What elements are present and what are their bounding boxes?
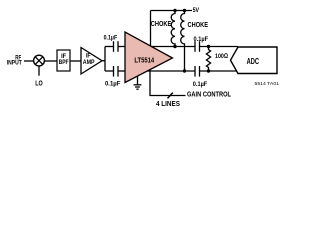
svg-text:AMP: AMP	[83, 59, 95, 66]
svg-text:0.1µF: 0.1µF	[193, 81, 208, 88]
svg-text:LO: LO	[35, 81, 43, 88]
svg-text:5514 TA01: 5514 TA01	[255, 81, 280, 86]
svg-text:0.1µF: 0.1µF	[104, 35, 118, 42]
svg-text:GAIN CONTROL: GAIN CONTROL	[187, 92, 231, 99]
svg-text:CHOKE: CHOKE	[151, 21, 172, 28]
svg-text:0.1µF: 0.1µF	[105, 80, 121, 87]
svg-text:5V: 5V	[193, 7, 200, 14]
svg-text:0.1µF: 0.1µF	[194, 36, 209, 43]
svg-text:4 LINES: 4 LINES	[156, 101, 180, 108]
svg-text:BPF: BPF	[59, 59, 69, 66]
svg-text:INPUT: INPUT	[7, 59, 22, 66]
svg-text:CHOKE: CHOKE	[188, 22, 209, 29]
svg-text:LT5514: LT5514	[134, 57, 154, 65]
svg-text:ADC: ADC	[247, 56, 259, 66]
svg-text:100Ω: 100Ω	[215, 53, 228, 60]
